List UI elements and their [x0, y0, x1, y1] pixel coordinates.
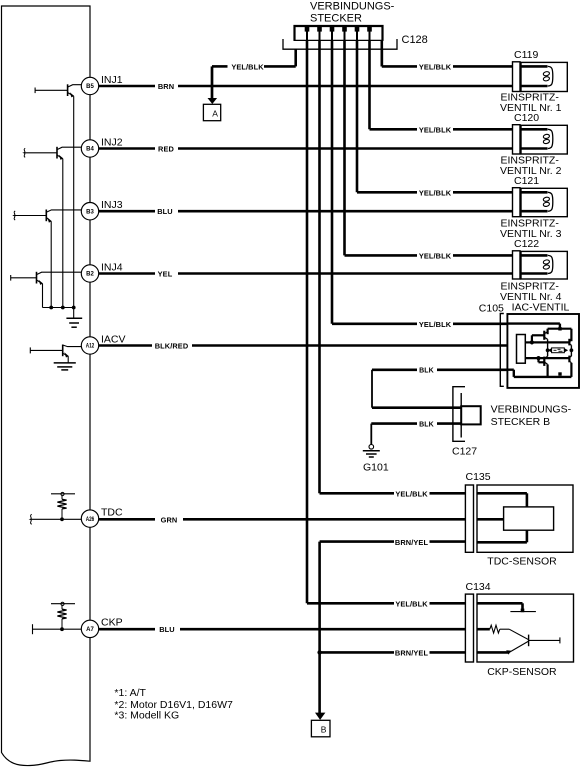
- svg-text:C135: C135: [466, 471, 491, 483]
- svg-text:C128: C128: [402, 34, 428, 46]
- svg-text:TDC-SENSOR: TDC-SENSOR: [487, 556, 557, 568]
- svg-text:GRN: GRN: [161, 515, 178, 524]
- svg-text:INJ1: INJ1: [101, 74, 123, 86]
- svg-text:A7: A7: [86, 627, 94, 633]
- svg-text:INJ3: INJ3: [101, 199, 123, 211]
- svg-text:YEL/BLK: YEL/BLK: [395, 490, 428, 499]
- svg-text:YEL/BLK: YEL/BLK: [395, 600, 428, 609]
- svg-text:B4: B4: [86, 147, 94, 153]
- svg-text:BRN: BRN: [158, 82, 174, 91]
- svg-text:VERBINDUNGS-: VERBINDUNGS-: [491, 404, 572, 416]
- svg-text:A12: A12: [86, 343, 95, 350]
- svg-text:YEL/BLK: YEL/BLK: [419, 126, 452, 135]
- svg-text:TDC: TDC: [101, 506, 123, 518]
- svg-text:YEL/BLK: YEL/BLK: [231, 62, 264, 71]
- svg-text:YEL: YEL: [158, 270, 173, 279]
- svg-text:IAC-VENTIL: IAC-VENTIL: [512, 302, 570, 314]
- svg-text:BLK/RED: BLK/RED: [155, 342, 189, 351]
- svg-text:C127: C127: [452, 446, 477, 458]
- svg-text:YEL/BLK: YEL/BLK: [419, 63, 452, 72]
- svg-text:C119: C119: [514, 49, 538, 61]
- svg-text:C134: C134: [466, 581, 491, 593]
- svg-text:YEL/BLK: YEL/BLK: [419, 252, 452, 261]
- svg-text:A26: A26: [86, 516, 95, 523]
- svg-text:BLK: BLK: [419, 421, 434, 428]
- svg-text:BLK: BLK: [419, 368, 434, 375]
- svg-text:YEL/BLK: YEL/BLK: [419, 189, 452, 198]
- svg-text:STECKER B: STECKER B: [491, 416, 551, 428]
- svg-text:C121: C121: [514, 175, 539, 187]
- svg-text:*1: A/T: *1: A/T: [114, 687, 146, 699]
- svg-text:VERBINDUNGS-: VERBINDUNGS-: [310, 0, 395, 12]
- svg-text:RED: RED: [158, 145, 174, 154]
- svg-text:BLU: BLU: [157, 207, 173, 216]
- svg-text:B2: B2: [86, 272, 94, 278]
- svg-text:C105: C105: [479, 302, 504, 314]
- svg-text:G101: G101: [363, 462, 389, 474]
- svg-text:BLU: BLU: [159, 625, 175, 634]
- svg-text:B3: B3: [86, 209, 94, 215]
- svg-text:B5: B5: [86, 84, 94, 90]
- svg-text:C120: C120: [514, 112, 539, 124]
- svg-text:BRN/YEL: BRN/YEL: [395, 538, 429, 547]
- svg-text:C122: C122: [514, 238, 539, 250]
- svg-text:CKP: CKP: [101, 617, 123, 629]
- svg-text:IACV: IACV: [101, 333, 126, 345]
- svg-text:INJ2: INJ2: [101, 136, 123, 148]
- svg-text:YEL/BLK: YEL/BLK: [419, 320, 452, 329]
- svg-text:BRN/YEL: BRN/YEL: [395, 649, 429, 658]
- svg-text:CKP-SENSOR: CKP-SENSOR: [487, 666, 557, 678]
- svg-text:B: B: [321, 725, 327, 735]
- svg-text:INJ4: INJ4: [101, 261, 123, 273]
- svg-text:A: A: [212, 108, 218, 118]
- svg-text:STECKER: STECKER: [310, 13, 362, 25]
- svg-text:*3: Modell KG: *3: Modell KG: [114, 710, 179, 722]
